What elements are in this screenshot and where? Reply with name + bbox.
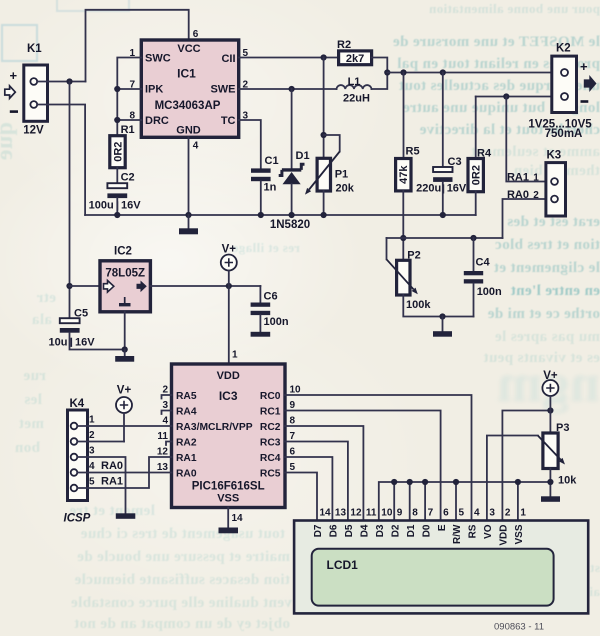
svg-text:V+: V+ (117, 385, 132, 397)
resistor R4 (468, 97, 492, 216)
wire VO to P3 wiper (487, 436, 538, 521)
svg-text:D6: D6 (329, 524, 340, 537)
K2 output arrow (584, 75, 597, 92)
svg-text:1: 1 (232, 350, 238, 361)
node IC2 input junction (66, 283, 72, 289)
svg-text:C4: C4 (476, 257, 491, 269)
svg-text:V+: V+ (222, 244, 237, 256)
svg-text:L1: L1 (348, 76, 361, 88)
svg-text:10k: 10k (558, 475, 577, 487)
svg-text:IPK: IPK (145, 84, 163, 96)
svg-text:6: 6 (443, 508, 449, 519)
svg-text:ICSP: ICSP (64, 513, 91, 525)
svg-text:20k: 20k (336, 183, 355, 195)
node P3 ground junction (547, 479, 553, 485)
svg-text:6: 6 (290, 447, 296, 458)
svg-text:RA4: RA4 (176, 407, 197, 418)
stub RA2 unconnected (166, 442, 172, 446)
svg-text:K3: K3 (547, 150, 562, 162)
node rail R5 junction (400, 69, 406, 75)
svg-text:100k: 100k (406, 299, 431, 311)
svg-text:1: 1 (89, 415, 95, 426)
LCD module LCD1 (294, 521, 588, 614)
wire CII node down to P1 (323, 58, 325, 159)
svg-text:RC1: RC1 (260, 407, 281, 418)
wire R2 right to output node (372, 58, 388, 73)
svg-text:RA0: RA0 (101, 460, 123, 472)
svg-text:10: 10 (290, 385, 302, 396)
node pin4 rail junction (185, 212, 191, 218)
potentiometer P3 (538, 422, 577, 496)
potentiometer P2 (387, 238, 432, 311)
svg-text:6: 6 (193, 29, 199, 40)
node P1 rail junction (321, 212, 327, 218)
voltage regulator IC2 78L05Z (100, 246, 150, 312)
svg-text:16V: 16V (447, 183, 467, 195)
wire LCD pin 5 to ground rail (455, 482, 457, 521)
svg-text:C2: C2 (121, 171, 135, 183)
wire P2 wiper rail (387, 237, 503, 239)
svg-text:D1: D1 (406, 524, 417, 537)
wire IC3 VSS pin 14 (227, 508, 229, 528)
resistor R1 (110, 124, 135, 168)
wire RC2 to D4 (285, 426, 363, 521)
svg-text:4: 4 (162, 416, 168, 427)
wire K4 pin5 RA1 to IC3 (77, 457, 171, 488)
connector K1 (10, 43, 48, 136)
svg-text:78L05Z: 78L05Z (105, 268, 145, 280)
svg-text:1: 1 (533, 173, 539, 184)
wire K1- to ground rail (37, 105, 85, 216)
wire IC1 pin4 to rail (188, 137, 190, 215)
svg-text:RA0: RA0 (176, 469, 197, 480)
svg-text:RC0: RC0 (260, 391, 281, 402)
wire output rail to K2+ (387, 72, 561, 74)
capacitor C1 (251, 155, 279, 194)
wire RA1 net to K3 (506, 97, 551, 182)
capacitor C5 (49, 308, 96, 349)
wire C5 bottom to IC2 gnd (70, 333, 125, 350)
svg-text:47k: 47k (398, 165, 410, 184)
svg-text:D4: D4 (360, 524, 371, 537)
svg-text:14: 14 (232, 513, 244, 524)
node output junction (384, 69, 390, 75)
connector K3 (546, 150, 566, 217)
svg-text:11: 11 (157, 431, 168, 442)
node C1 rail junction (258, 212, 264, 218)
svg-text:3: 3 (489, 508, 495, 519)
svg-text:VDD: VDD (499, 525, 510, 546)
wire C1 to rail (260, 181, 262, 215)
svg-text:14: 14 (320, 508, 332, 519)
svg-text:12V: 12V (23, 124, 44, 136)
svg-text:VSS: VSS (217, 493, 239, 505)
node D1 junction (289, 86, 295, 92)
svg-text:100n: 100n (264, 316, 289, 328)
svg-text:1: 1 (520, 508, 526, 519)
svg-text:10: 10 (381, 508, 393, 519)
svg-text:2: 2 (505, 508, 511, 519)
wire IC1 left pins column (117, 58, 141, 136)
svg-text:16V: 16V (121, 200, 141, 212)
svg-text:8: 8 (412, 508, 418, 519)
wire LCD pin 9 to ground rail (393, 482, 395, 521)
capacitor C2 (89, 171, 142, 211)
power V+ symbol above K4 (116, 385, 132, 442)
svg-text:TC: TC (221, 115, 236, 127)
node RA1 junction (503, 93, 509, 99)
show-through box outline top left (1, 24, 38, 62)
svg-text:5: 5 (89, 477, 95, 488)
node C3 rail junction (440, 212, 446, 218)
svg-text:RC2: RC2 (260, 422, 281, 433)
svg-text:IC2: IC2 (114, 246, 132, 258)
svg-text:2: 2 (89, 430, 95, 441)
svg-text:13: 13 (157, 462, 169, 473)
svg-text:090863 - 11: 090863 - 11 (494, 622, 544, 633)
svg-text:4: 4 (89, 461, 95, 472)
svg-text:+: + (580, 59, 588, 74)
svg-text:VO: VO (483, 524, 494, 539)
wire R5 bottom to P2 (crosses rail) (402, 191, 404, 260)
show-through big blob right (455, 352, 600, 414)
capacitor C4 (464, 238, 502, 317)
node V+ junction (226, 283, 232, 289)
svg-text:4: 4 (474, 508, 480, 519)
svg-text:2k7: 2k7 (346, 53, 364, 65)
svg-text:C3: C3 (448, 156, 462, 168)
node CII junction (321, 54, 327, 60)
wire pin2 SWE line (239, 88, 337, 90)
svg-text:D3: D3 (375, 524, 386, 537)
node rail C3 junction (440, 69, 446, 75)
svg-text:RA5: RA5 (176, 391, 197, 402)
op-amp IC1 MC34063AP (141, 40, 238, 137)
power V+ symbol above P3 (542, 370, 558, 433)
svg-text:P3: P3 (556, 422, 569, 434)
svg-text:R4: R4 (477, 148, 492, 160)
K1 input arrow (5, 86, 16, 98)
svg-text:RC5: RC5 (260, 469, 281, 480)
svg-text:4: 4 (193, 141, 199, 152)
wire 12V vertical to C5/IC2 (69, 82, 71, 319)
wire K4 pin1 to MCLR (77, 425, 171, 427)
svg-text:5: 5 (290, 462, 296, 473)
svg-text:RA1: RA1 (507, 172, 529, 184)
node P2 top junction (400, 235, 406, 241)
wire RC4 to D6 (285, 457, 332, 521)
stub RA5 unconnected (162, 395, 172, 399)
svg-text:PIC16F616SL: PIC16F616SL (192, 481, 265, 493)
potentiometer P1 (305, 135, 355, 215)
svg-text:LCD1: LCD1 (327, 558, 359, 572)
svg-text:3: 3 (89, 446, 95, 457)
ground under C6 (251, 332, 271, 337)
wire IC2 gnd pin (124, 312, 126, 350)
svg-text:RC3: RC3 (260, 438, 281, 449)
svg-text:22uH: 22uH (343, 93, 370, 105)
svg-text:3: 3 (162, 400, 168, 411)
svg-text:9: 9 (290, 400, 296, 411)
svg-text:R2: R2 (337, 39, 351, 51)
microcontroller IC3 PIC16F616SL (172, 364, 286, 508)
svg-text:R5: R5 (406, 146, 420, 158)
svg-text:10u: 10u (49, 336, 68, 348)
svg-text:11: 11 (366, 508, 377, 519)
svg-text:2: 2 (162, 385, 168, 396)
wire LCD pin 1 to ground rail (517, 482, 519, 521)
inductor L1 (337, 76, 372, 105)
wire C2 to rail (116, 198, 118, 215)
ground under IC1 (188, 215, 190, 228)
svg-text:RA1: RA1 (176, 453, 197, 464)
diode D1 1N5820 (279, 89, 310, 215)
svg-text:5: 5 (459, 508, 465, 519)
svg-text:MC34063AP: MC34063AP (155, 100, 221, 112)
wire RC0 to RS (285, 395, 472, 521)
svg-text:RA3/MCLR/VPP: RA3/MCLR/VPP (176, 422, 253, 433)
svg-text:0R2: 0R2 (112, 142, 124, 162)
connector K4 (64, 398, 91, 525)
show-through left strips (0, 122, 18, 161)
svg-text:2: 2 (533, 190, 539, 201)
wire R1 to C2 (116, 168, 118, 184)
wire V+ down to IC3 VDD (228, 286, 230, 364)
node V+ P3 junction (547, 407, 553, 413)
svg-text:D2: D2 (390, 524, 401, 537)
svg-text:C6: C6 (264, 291, 278, 303)
svg-text:220u: 220u (416, 183, 441, 195)
svg-text:13: 13 (335, 508, 347, 519)
svg-text:K4: K4 (70, 398, 85, 410)
wire IC2 output to V+ node (150, 285, 260, 287)
node IC2 ground junction (122, 346, 128, 352)
wire LCD pin 8 to ground rail (409, 482, 411, 521)
node P1 wiper junction (321, 132, 327, 138)
svg-text:RA0: RA0 (507, 189, 529, 201)
ground under P3 (541, 496, 560, 502)
svg-text:C1: C1 (265, 155, 279, 167)
resistor R5 (396, 73, 420, 191)
svg-text:RS: RS (468, 524, 479, 538)
wire pin3 TC to C1 (239, 120, 261, 168)
svg-text:R/W: R/W (452, 524, 463, 544)
svg-text:RC4: RC4 (260, 453, 281, 464)
svg-text:7: 7 (428, 508, 434, 519)
svg-text:SWE: SWE (210, 84, 235, 96)
svg-text:16V: 16V (75, 336, 95, 348)
node pin7 junction (114, 86, 120, 92)
svg-text:RA1: RA1 (101, 476, 123, 488)
svg-text:GND: GND (176, 125, 201, 137)
wire RC3 to D5 (285, 442, 348, 521)
capacitor C3 (416, 73, 467, 216)
wire IC2 input (70, 285, 101, 287)
svg-text:VSS: VSS (514, 524, 525, 544)
svg-text:100n: 100n (477, 286, 502, 298)
svg-text:VCC: VCC (177, 43, 200, 55)
ground under K4 pin3 wire (116, 513, 136, 519)
wire ground rail (85, 214, 476, 216)
wire LCD VDD to V+ (502, 411, 550, 521)
wire RA0 net to K3 (503, 199, 552, 238)
svg-text:P2: P2 (407, 250, 420, 262)
svg-text:750mA: 750mA (545, 128, 583, 140)
svg-text:C5: C5 (74, 308, 88, 320)
node C2 rail junction (114, 212, 120, 218)
svg-text:8: 8 (290, 416, 296, 427)
wire pin5 CII line (239, 57, 339, 59)
svg-text:0R2: 0R2 (471, 165, 483, 185)
svg-text:1n: 1n (264, 182, 277, 194)
ground under IC2 (124, 350, 126, 357)
show-through text top right (300, 1, 600, 17)
svg-text:CII: CII (221, 53, 235, 65)
wire K4 pin4 RA0 to IC3 (77, 472, 171, 474)
node C4 top junction (470, 235, 476, 241)
wire RC5 to D7 (285, 473, 317, 521)
svg-text:D7: D7 (313, 524, 324, 537)
svg-text:IC3: IC3 (219, 389, 238, 403)
svg-text:D0: D0 (421, 524, 432, 537)
wire K4 pin3 to ground (77, 457, 125, 513)
svg-text:VDD: VDD (217, 370, 240, 382)
svg-text:12: 12 (350, 508, 362, 519)
svg-text:P1: P1 (335, 168, 348, 180)
svg-text:IC1: IC1 (177, 67, 196, 81)
wire P2 bottom rail (403, 295, 473, 317)
wire LCD pin 7 to ground rail (424, 482, 426, 521)
svg-text:9: 9 (397, 508, 403, 519)
show-through right middle (428, 214, 600, 231)
ground under IC3 (219, 528, 239, 534)
svg-text:K2: K2 (556, 43, 571, 55)
svg-text:SWC: SWC (145, 53, 171, 65)
svg-text:K1: K1 (27, 43, 42, 55)
LCD pin name labels (313, 524, 525, 546)
node pin8 junction (114, 117, 120, 123)
node K1+ junction (66, 78, 72, 84)
wire L1 right to output node (372, 73, 388, 90)
wire LCD ground rail (379, 482, 551, 521)
resistor R2 (337, 39, 372, 65)
svg-text:1N5820: 1N5820 (270, 219, 310, 231)
wire K1+ to junction (37, 81, 85, 83)
svg-text:D5: D5 (344, 524, 355, 537)
svg-text:100u: 100u (89, 200, 114, 212)
svg-text:E: E (437, 524, 448, 531)
show-through inside LCD (360, 556, 550, 572)
show-through bottom left block (0, 503, 155, 520)
svg-text:R1: R1 (121, 124, 135, 136)
ground under P2 (442, 317, 444, 332)
svg-text:RA2: RA2 (176, 438, 197, 449)
LCD pin numbers row (320, 508, 527, 519)
capacitor C6 (251, 286, 289, 332)
wire K4 pin2 to V+ (77, 441, 124, 443)
svg-text:DRC: DRC (145, 115, 169, 127)
svg-text:12: 12 (157, 447, 169, 458)
svg-text:D1: D1 (296, 150, 310, 162)
stub RA4 unconnected (162, 411, 172, 415)
svg-text:7: 7 (290, 431, 296, 442)
svg-text:+: + (10, 68, 18, 83)
wire K2 minus line (476, 96, 561, 98)
power V+ symbol above IC2 output (221, 244, 237, 287)
node D1 rail junction (289, 212, 295, 218)
wire RC1 to E (285, 411, 441, 521)
wire VCC top run (86, 10, 189, 82)
connector K2 (528, 43, 592, 141)
node P2/C4 ground junction (439, 313, 445, 319)
